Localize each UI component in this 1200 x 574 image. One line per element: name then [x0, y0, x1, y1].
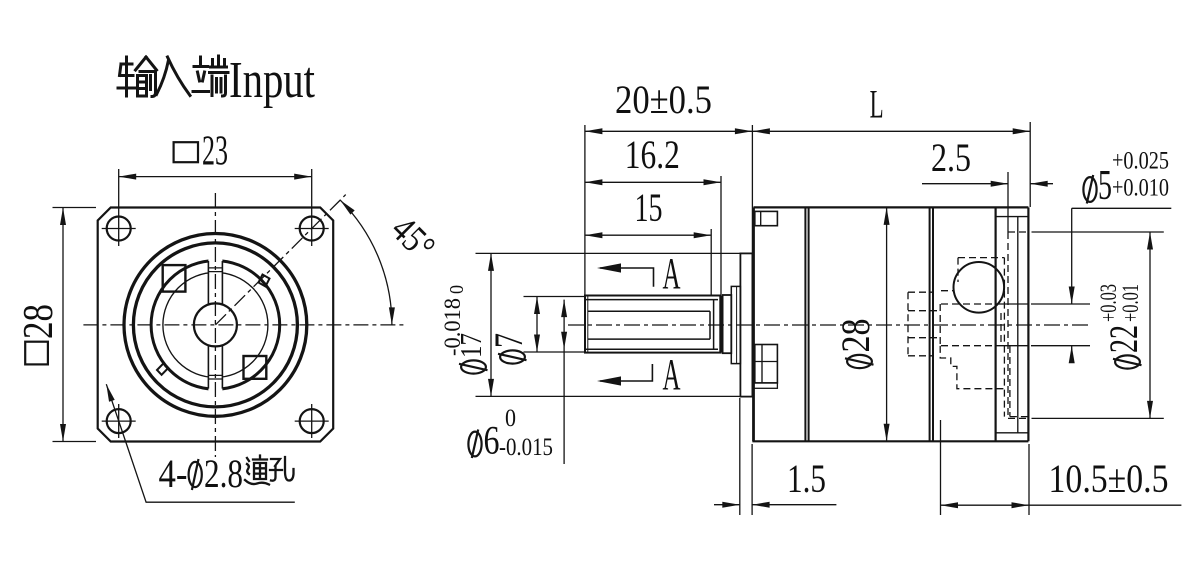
label phi5 tolerances: [1083, 175, 1096, 204]
svg-text:0: 0: [505, 405, 516, 432]
svg-text:28: 28: [833, 319, 878, 353]
washer ring: [723, 295, 732, 353]
hanzi duan: [193, 57, 209, 92]
svg-text:+0.010: +0.010: [1112, 175, 1169, 202]
dim 20+-0.5: [585, 130, 753, 132]
ball plug: [954, 262, 1005, 313]
pilot bore circle: [133, 243, 297, 407]
hidden coupling lines: [908, 292, 940, 356]
dim phi28: [886, 207, 888, 441]
svg-text:A: A: [663, 249, 681, 298]
centerline diagonal 45: [215, 195, 345, 325]
svg-text:L: L: [870, 82, 884, 127]
svg-text:Input: Input: [229, 52, 315, 109]
shaft bore circle: [194, 303, 237, 346]
FRONT_VIEW: [476, 122, 1182, 515]
svg-text:22: 22: [1101, 325, 1146, 353]
svg-text:+0.01: +0.01: [1118, 284, 1143, 322]
housing division B: [930, 207, 933, 441]
label phi6 0 -0.015: [468, 430, 481, 459]
bolt hole bottom-right: [300, 409, 324, 433]
dim phi5: [1072, 208, 1172, 361]
flange square outline: [98, 208, 334, 442]
svg-text:4-: 4-: [159, 451, 188, 496]
section arrow A lower: [600, 364, 652, 381]
svg-text:0: 0: [446, 285, 468, 294]
phi5 bore visible: [996, 304, 1029, 346]
hanzi shu: [118, 57, 135, 96]
phi symbol of 2.8: [189, 462, 202, 487]
output cap step lines: [996, 217, 1029, 433]
coupling chamfer circle: [163, 272, 268, 377]
hanzi tong: [245, 458, 269, 485]
dim L: [752, 130, 1030, 132]
svg-text:1.5: 1.5: [787, 456, 826, 501]
label phi28: [833, 319, 878, 369]
dim 1.5: [714, 504, 836, 506]
dimension square28: [53, 208, 97, 442]
phi17 pilot disc: [740, 253, 752, 396]
dim phi6: [563, 300, 565, 464]
housing division C: [994, 207, 996, 441]
dim phi22: [1149, 232, 1151, 418]
housing left face: [752, 207, 755, 441]
label phi22 tolerances: [1096, 284, 1146, 369]
notch NE: [259, 275, 270, 287]
sleeve tip chamfer: [587, 296, 589, 353]
svg-text:A: A: [663, 350, 681, 399]
svg-text:16.2: 16.2: [625, 132, 680, 177]
dim 15: [585, 234, 711, 236]
svg-text:15: 15: [635, 185, 663, 230]
sleeve inner lines: [588, 300, 714, 350]
bolt hole bottom-left: [107, 409, 131, 433]
svg-text:6: 6: [484, 418, 500, 463]
svg-text:-0.015: -0.015: [499, 434, 553, 461]
hidden phi5 bore dashed: [941, 304, 996, 346]
svg-text:23: 23: [202, 129, 228, 175]
hidden bore step: [940, 346, 1004, 389]
centerline vertical: [214, 193, 216, 457]
clamp screw socket SE: [244, 356, 267, 379]
svg-text:2.5: 2.5: [931, 135, 971, 180]
svg-text:2.8: 2.8: [204, 451, 243, 496]
output end face: [1027, 207, 1029, 441]
label phi7: [486, 333, 531, 364]
svg-text:7: 7: [486, 333, 531, 348]
spacer ring: [731, 286, 740, 363]
sleeve end band: [720, 296, 723, 353]
dim 16.2: [585, 181, 721, 183]
hanzi ru: [157, 57, 191, 96]
dim phi7: [536, 297, 538, 353]
input sleeve outer: [585, 296, 720, 353]
dim 10.5+-0.5: [941, 504, 1182, 506]
centerline axis: [568, 324, 1090, 326]
dimension 45deg arc: [340, 200, 392, 325]
label phi17 0 -0.018: [440, 285, 488, 374]
mounting slot top: [755, 211, 778, 225]
centerline horizontal: [83, 324, 405, 326]
housing top edge: [754, 206, 1029, 208]
svg-text:5: 5: [1098, 163, 1112, 209]
pilot boss circle outer: [124, 234, 307, 417]
mounting slot bottom: [755, 345, 778, 383]
svg-text:-0.018: -0.018: [440, 298, 465, 356]
clamp screw socket NW: [163, 265, 186, 292]
svg-text:10.5±0.5: 10.5±0.5: [1049, 456, 1169, 501]
bolt hole top-right: [300, 217, 324, 241]
dim phi17: [490, 253, 492, 396]
housing bottom edge: [752, 440, 1028, 442]
notch SW: [157, 363, 168, 374]
dim 2.5: [922, 183, 1053, 185]
sleeve bore lines: [585, 300, 718, 350]
svg-text:20±0.5: 20±0.5: [615, 77, 712, 122]
leader 4-phi2.8: [106, 384, 294, 502]
coupling clamp slot: [208, 258, 222, 391]
hanzi kong: [270, 457, 294, 481]
bolt hole top-left: [107, 217, 131, 241]
svg-text:+0.025: +0.025: [1112, 148, 1169, 175]
hidden phi22 bore dashed: [1008, 232, 1029, 418]
section arrow A upper: [600, 268, 654, 287]
svg-text:28: 28: [16, 304, 62, 339]
input coupling outer circle: [151, 261, 280, 390]
extension lines: [476, 122, 1164, 515]
housing division A: [805, 207, 808, 441]
dimension square23: [119, 176, 312, 178]
hidden ball seat: [958, 258, 1028, 417]
